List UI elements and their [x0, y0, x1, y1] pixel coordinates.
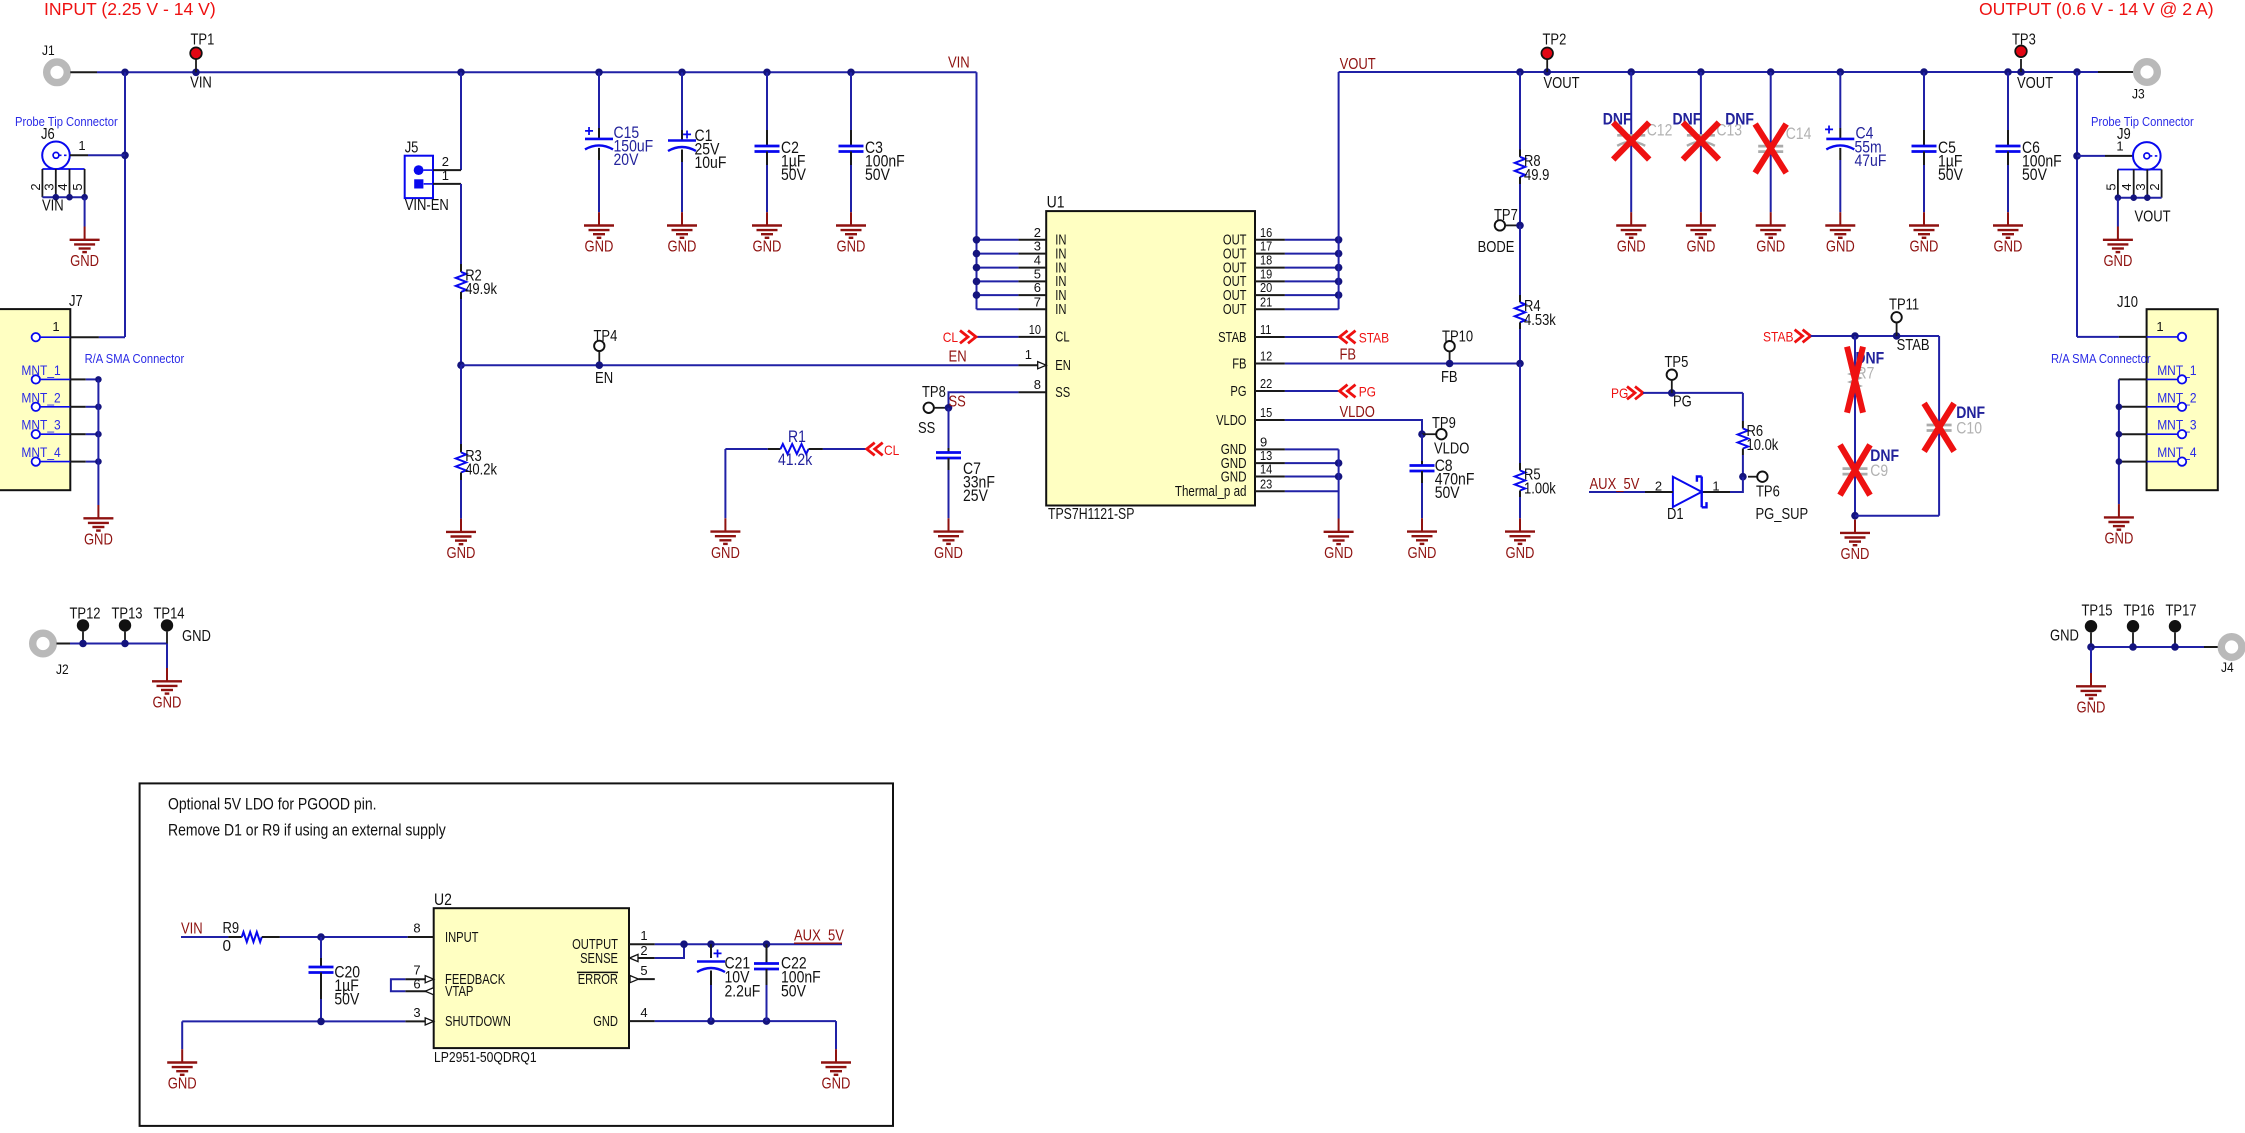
- svg-text:AUX_5V: AUX_5V: [1590, 476, 1641, 493]
- svg-text:GND: GND: [593, 1014, 618, 1030]
- svg-text:SS: SS: [918, 420, 935, 437]
- svg-text:GND: GND: [1408, 545, 1437, 562]
- wire R1 to ground: [724, 449, 726, 518]
- pin SHUTDOWN 3: [405, 1020, 425, 1022]
- svg-text:D1: D1: [1667, 506, 1684, 523]
- ground R5: [1505, 518, 1535, 544]
- wire FB net: [1285, 363, 1520, 365]
- svg-text:6: 6: [1034, 280, 1041, 295]
- capacitor C6: [2007, 72, 2009, 130]
- ground U2 left: [167, 1049, 197, 1075]
- svg-text:PG: PG: [1230, 384, 1246, 400]
- svg-text:50V: 50V: [1435, 483, 1460, 502]
- wire J6 branch vertical: [124, 72, 126, 337]
- svg-text:TP7: TP7: [1494, 207, 1518, 224]
- svg-text:6: 6: [413, 977, 420, 992]
- ground C5: [1909, 212, 1939, 238]
- svg-text:INPUT: INPUT: [445, 930, 479, 946]
- svg-text:GND: GND: [1686, 239, 1715, 256]
- connector J2: [33, 633, 54, 654]
- wire TP12-TP14 row: [70, 643, 167, 645]
- svg-text:STAB: STAB: [1218, 330, 1246, 346]
- svg-text:TP9: TP9: [1432, 415, 1456, 432]
- svg-text:GND: GND: [1826, 239, 1855, 256]
- svg-text:TP11: TP11: [1889, 297, 1919, 314]
- svg-text:3: 3: [413, 1005, 420, 1020]
- svg-text:FB: FB: [1340, 347, 1357, 364]
- svg-text:41.2k: 41.2k: [778, 450, 813, 469]
- svg-text:1: 1: [442, 168, 449, 183]
- svg-text:MNT_4: MNT_4: [21, 445, 60, 461]
- wire VOUT branch to J9 and J10: [2076, 72, 2078, 337]
- svg-text:GND: GND: [153, 695, 182, 712]
- svg-text:8: 8: [413, 921, 420, 936]
- svg-text:EN: EN: [949, 349, 967, 366]
- svg-text:GND: GND: [1841, 546, 1870, 563]
- wire J6 shield to ground: [84, 197, 86, 226]
- ground J10: [2104, 504, 2134, 530]
- svg-text:SS: SS: [1055, 385, 1070, 401]
- svg-text:J6: J6: [41, 126, 55, 143]
- capacitor C15 (electrolytic): [598, 72, 600, 128]
- wire VIN rail drop to U1 IN bus: [976, 72, 978, 309]
- wire TP14 to ground: [166, 644, 168, 669]
- diode D1 (schottky): [1702, 491, 1730, 493]
- connector J10 body: [2147, 309, 2218, 490]
- svg-text:1: 1: [2116, 139, 2123, 154]
- capacitor C12 (DNF): [1630, 72, 1632, 212]
- svg-text:1: 1: [2156, 319, 2163, 334]
- svg-text:VLDO: VLDO: [1434, 441, 1469, 458]
- U1 IN pins 2-7: [1018, 239, 1046, 241]
- svg-text:J2: J2: [56, 662, 69, 678]
- svg-text:GND: GND: [1506, 545, 1535, 562]
- pin 1 of J6: [70, 154, 88, 156]
- svg-text:Optional 5V LDO for PGOOD pin.: Optional 5V LDO for PGOOD pin.: [168, 795, 377, 814]
- svg-text:GND: GND: [668, 239, 697, 256]
- svg-text:VTAP: VTAP: [445, 984, 473, 1000]
- svg-text:GND: GND: [447, 545, 476, 562]
- svg-text:TP6: TP6: [1756, 484, 1780, 501]
- svg-text:R1: R1: [788, 427, 806, 446]
- wire J5 pin2 to VIN rail: [460, 72, 462, 170]
- svg-text:1.00k: 1.00k: [1524, 481, 1556, 498]
- svg-text:VOUT: VOUT: [2135, 209, 2172, 226]
- svg-text:TP2: TP2: [1543, 32, 1567, 49]
- svg-text:+: +: [682, 127, 691, 144]
- svg-text:0: 0: [223, 938, 232, 955]
- wire SHUTDOWN to ground: [182, 1020, 405, 1022]
- svg-text:Probe Tip Connector: Probe Tip Connector: [15, 114, 118, 129]
- svg-text:C12: C12: [1647, 121, 1673, 140]
- pin FEEDBACK 7: [405, 978, 425, 980]
- svg-text:2: 2: [1655, 478, 1662, 493]
- ground TP row left: [152, 668, 182, 694]
- svg-text:GND: GND: [70, 253, 99, 270]
- off-page PG chevron: [1340, 385, 1356, 398]
- svg-text:J10: J10: [2117, 294, 2138, 311]
- svg-text:1: 1: [52, 319, 59, 334]
- wire R9 to U2 INPUT: [280, 936, 408, 938]
- svg-text:C9: C9: [1870, 461, 1888, 480]
- svg-text:11: 11: [1260, 322, 1271, 337]
- svg-text:SENSE: SENSE: [580, 951, 618, 967]
- svg-text:TP10: TP10: [1442, 329, 1473, 346]
- svg-text:21: 21: [1260, 294, 1272, 309]
- ground C12: [1616, 212, 1646, 238]
- svg-text:1: 1: [1712, 478, 1719, 493]
- ground STAB network: [1840, 520, 1870, 546]
- testpoint TP3: [2020, 59, 2022, 72]
- IC U2 body: [434, 908, 629, 1048]
- svg-text:3: 3: [2133, 183, 2148, 190]
- ground C13: [1686, 212, 1716, 238]
- svg-text:DNF: DNF: [1725, 110, 1754, 129]
- testpoint TP10: [1444, 341, 1454, 351]
- svg-text:CL: CL: [1055, 330, 1069, 346]
- wire VLDO net: [1285, 420, 1422, 434]
- testpoint TP1: [195, 58, 197, 72]
- wire OUT bus to VOUT rail: [1338, 72, 1340, 309]
- svg-text:GND: GND: [1221, 469, 1247, 485]
- svg-text:7: 7: [413, 963, 420, 978]
- pin INPUT 8: [408, 936, 434, 938]
- wire U1 GND bus: [1285, 448, 1339, 450]
- svg-text:U2: U2: [434, 890, 452, 909]
- svg-text:14: 14: [1260, 462, 1272, 477]
- svg-text:J3: J3: [2132, 87, 2145, 103]
- J9 pin grid: [2118, 169, 2162, 171]
- wire VOUT rail: [1339, 71, 2098, 73]
- ground R3: [446, 519, 476, 545]
- svg-text:2: 2: [2147, 183, 2162, 190]
- ground J9: [2103, 227, 2133, 253]
- connector J7 body: [0, 309, 70, 490]
- svg-text:MNT_3: MNT_3: [2157, 418, 2196, 434]
- pin SENSE 2: [638, 957, 655, 959]
- svg-text:PG_SUP: PG_SUP: [1756, 506, 1809, 523]
- svg-text:IN: IN: [1055, 302, 1066, 318]
- svg-text:C10: C10: [1956, 419, 1982, 438]
- ground J7: [83, 505, 113, 531]
- capacitor C2: [766, 72, 768, 130]
- svg-text:1: 1: [1025, 347, 1032, 362]
- ground U1: [1324, 519, 1354, 545]
- svg-text:J1: J1: [42, 43, 55, 59]
- svg-text:TP3: TP3: [2012, 32, 2036, 49]
- J6 pin grid: [42, 168, 84, 170]
- ground C4: [1825, 212, 1855, 238]
- svg-text:TPS7H1121-SP: TPS7H1121-SP: [1048, 506, 1134, 523]
- svg-text:50V: 50V: [781, 982, 806, 1001]
- node FB junction: [1516, 360, 1524, 368]
- wire J10 MNT bus: [2118, 379, 2120, 504]
- pin PG 22: [1255, 390, 1285, 392]
- svg-text:10.0k: 10.0k: [1747, 437, 1779, 454]
- pin EN 1: [1018, 364, 1037, 366]
- svg-text:VLDO: VLDO: [1216, 413, 1246, 429]
- svg-text:10uF: 10uF: [695, 153, 727, 172]
- svg-text:+: +: [584, 123, 593, 140]
- svg-text:C14: C14: [1786, 124, 1812, 143]
- svg-text:GND: GND: [84, 532, 113, 549]
- svg-text:VLDO: VLDO: [1340, 404, 1375, 421]
- svg-text:TP1: TP1: [191, 32, 215, 49]
- capacitor C10 (DNF): [1938, 336, 1940, 516]
- svg-text:TP15: TP15: [2081, 603, 2112, 620]
- wire U1 OUT bus: [1285, 239, 1339, 241]
- wire VIN to R9: [181, 936, 228, 938]
- svg-text:J4: J4: [2221, 660, 2234, 676]
- svg-text:ERROR: ERROR: [578, 972, 618, 988]
- testpoint TP5: [1667, 370, 1677, 380]
- svg-text:R/A SMA Connector: R/A SMA Connector: [85, 351, 185, 366]
- svg-text:VIN: VIN: [42, 198, 64, 215]
- testpoint TP15: [2085, 620, 2097, 632]
- svg-text:VOUT: VOUT: [1340, 56, 1377, 73]
- wire J7 MNT bus: [97, 379, 99, 505]
- svg-text:MNT_4: MNT_4: [2157, 445, 2196, 461]
- svg-text:2: 2: [442, 154, 449, 169]
- svg-text:18: 18: [1260, 253, 1272, 268]
- svg-text:VIN-EN: VIN-EN: [405, 197, 449, 214]
- wire U2 GND net: [655, 1020, 836, 1022]
- resistor R5: [1519, 364, 1521, 464]
- svg-text:4.53k: 4.53k: [1524, 312, 1556, 329]
- svg-text:GND: GND: [168, 1076, 197, 1093]
- svg-text:GND: GND: [585, 239, 614, 256]
- svg-text:GND: GND: [934, 545, 963, 562]
- capacitor C7: [948, 408, 950, 448]
- svg-text:FB: FB: [1441, 369, 1458, 386]
- pin 1 of J5: [424, 183, 433, 185]
- U1 OUT pins 16-21: [1255, 239, 1285, 241]
- svg-text:GND: GND: [2050, 628, 2079, 645]
- wire SENSE to OUTPUT: [655, 944, 684, 958]
- capacitor C21 (electrolytic): [710, 944, 712, 958]
- svg-text:5: 5: [70, 183, 85, 190]
- svg-text:PG: PG: [1611, 386, 1628, 402]
- svg-text:PG: PG: [1673, 394, 1692, 411]
- ground U2 right: [821, 1049, 851, 1075]
- svg-text:3: 3: [1034, 239, 1041, 254]
- wire TP15-TP17 row: [2091, 646, 2204, 648]
- resistor R1: [725, 448, 767, 450]
- svg-text:TP12: TP12: [69, 606, 100, 623]
- wire STAB stub: [1285, 336, 1340, 338]
- svg-text:LP2951-50QDRQ1: LP2951-50QDRQ1: [434, 1050, 537, 1066]
- capacitor C14 (DNF): [1770, 72, 1772, 212]
- U1 GND pins 9 13 14 23: [1255, 448, 1285, 450]
- testpoint TP16: [2127, 620, 2139, 632]
- svg-text:GND: GND: [711, 545, 740, 562]
- off-page CL chevron: [960, 331, 976, 344]
- svg-text:50V: 50V: [2022, 165, 2047, 184]
- svg-text:R/A SMA Connector: R/A SMA Connector: [2051, 351, 2151, 366]
- svg-text:GND: GND: [2103, 253, 2132, 270]
- ground C3: [836, 212, 866, 238]
- IC U1 body: [1046, 211, 1255, 505]
- svg-text:VOUT: VOUT: [2017, 75, 2054, 92]
- svg-text:CL: CL: [884, 443, 899, 459]
- pin SS 8: [1018, 391, 1046, 393]
- svg-text:OUTPUT (0.6 V - 14 V @ 2 A): OUTPUT (0.6 V - 14 V @ 2 A): [1979, 0, 2214, 19]
- svg-text:SHUTDOWN: SHUTDOWN: [445, 1014, 511, 1030]
- svg-text:INPUT (2.25 V - 14 V): INPUT (2.25 V - 14 V): [44, 0, 216, 19]
- ground C15: [584, 212, 614, 238]
- svg-text:20: 20: [1260, 280, 1272, 295]
- svg-text:40.2k: 40.2k: [465, 462, 497, 479]
- svg-text:1: 1: [640, 928, 647, 943]
- testpoint TP4: [594, 341, 604, 351]
- svg-text:TP4: TP4: [594, 328, 618, 345]
- svg-text:CL: CL: [943, 330, 958, 346]
- testpoint TP13: [119, 619, 131, 631]
- node STAB gnd junction: [1851, 512, 1859, 520]
- svg-text:Probe Tip Connector: Probe Tip Connector: [2091, 114, 2194, 129]
- svg-text:25V: 25V: [963, 486, 988, 505]
- svg-text:MNT_1: MNT_1: [21, 363, 60, 379]
- svg-text:Remove D1 or R9 if using an ex: Remove D1 or R9 if using an external sup…: [168, 821, 446, 840]
- wire D1 cathode to R6: [1730, 477, 1743, 492]
- svg-text:2.2uF: 2.2uF: [725, 982, 761, 1001]
- node VIN junctions on rail: [121, 69, 129, 77]
- svg-text:20V: 20V: [614, 150, 639, 169]
- pin FB 12: [1255, 363, 1285, 365]
- svg-text:EN: EN: [1055, 358, 1071, 374]
- svg-text:+: +: [1824, 122, 1833, 139]
- svg-text:GND: GND: [1756, 239, 1785, 256]
- svg-text:STAB: STAB: [1763, 330, 1794, 346]
- wire SS net: [949, 392, 1019, 408]
- svg-text:MNT_2: MNT_2: [21, 390, 60, 406]
- svg-text:GND: GND: [1994, 239, 2023, 256]
- svg-text:TP8: TP8: [922, 384, 946, 401]
- wire J9 shield to ground: [2117, 198, 2119, 227]
- resistor R8: [1519, 72, 1521, 150]
- svg-text:FB: FB: [1232, 356, 1246, 372]
- wire feedback-vtap loop: [391, 979, 405, 991]
- svg-text:5: 5: [640, 963, 647, 978]
- svg-text:4: 4: [1034, 253, 1041, 268]
- pin ERROR 5: [639, 978, 655, 980]
- svg-text:50V: 50V: [334, 990, 359, 1009]
- ground C1: [667, 212, 697, 238]
- svg-text:VIN: VIN: [948, 55, 970, 72]
- svg-text:AUX_5V: AUX_5V: [794, 928, 845, 945]
- wire EN net: [461, 364, 1018, 366]
- svg-text:BODE: BODE: [1478, 239, 1515, 256]
- connector J4: [2221, 637, 2242, 658]
- svg-text:23: 23: [1260, 476, 1272, 491]
- svg-text:J7: J7: [69, 293, 83, 310]
- off-page CL chevron right side: [867, 443, 883, 456]
- svg-text:OUT: OUT: [1223, 302, 1247, 318]
- ground TP row right: [2076, 673, 2106, 699]
- svg-text:1: 1: [78, 138, 85, 153]
- svg-text:GND: GND: [753, 239, 782, 256]
- svg-text:MNT_1: MNT_1: [2157, 363, 2196, 379]
- svg-text:4: 4: [55, 183, 70, 190]
- svg-text:GND: GND: [1324, 545, 1353, 562]
- svg-text:50V: 50V: [865, 165, 890, 184]
- svg-text:GND: GND: [1617, 239, 1646, 256]
- resistor R6: [1742, 393, 1744, 421]
- svg-text:47uF: 47uF: [1855, 151, 1887, 170]
- testpoint TP11: [1891, 312, 1901, 322]
- svg-text:22: 22: [1260, 376, 1272, 391]
- resistor R3: [460, 365, 462, 444]
- wire PG net: [1643, 392, 1743, 394]
- svg-text:10: 10: [1029, 322, 1041, 337]
- svg-text:R9: R9: [223, 920, 240, 937]
- pin VTAP 6: [405, 990, 433, 992]
- svg-text:4: 4: [640, 1005, 647, 1020]
- note box optional LDO: [140, 783, 893, 1126]
- svg-text:GND: GND: [837, 239, 866, 256]
- svg-text:50V: 50V: [781, 165, 806, 184]
- pin OUTPUT 1: [629, 943, 655, 945]
- pin STAB 11: [1255, 336, 1285, 338]
- wire PG stub: [1285, 390, 1340, 392]
- capacitor C8: [1421, 434, 1423, 461]
- svg-text:MNT_3: MNT_3: [21, 418, 60, 434]
- svg-text:7: 7: [1034, 294, 1041, 309]
- svg-text:15: 15: [1260, 405, 1272, 420]
- svg-text:GND: GND: [182, 628, 211, 645]
- svg-text:VIN: VIN: [190, 75, 212, 92]
- capacitor C3: [850, 72, 852, 130]
- testpoint TP2: [1546, 59, 1548, 72]
- capacitor C13 (DNF): [1700, 72, 1702, 212]
- svg-text:17: 17: [1260, 239, 1272, 254]
- svg-text:2: 2: [1034, 225, 1041, 240]
- pin 1 of J10: [2077, 336, 2119, 338]
- testpoint TP6: [1739, 473, 1747, 481]
- svg-text:49.9k: 49.9k: [465, 281, 497, 298]
- pin GND 4: [629, 1020, 655, 1022]
- wire J1 to rail: [70, 71, 97, 73]
- ground C6: [1993, 212, 2023, 238]
- svg-text:+: +: [713, 946, 722, 963]
- ground C14: [1756, 212, 1786, 238]
- svg-text:TP14: TP14: [153, 606, 184, 623]
- wire AUX_5V net: [655, 943, 842, 945]
- capacitor C22: [766, 944, 768, 963]
- svg-text:5: 5: [2103, 183, 2118, 190]
- capacitor C5: [1923, 72, 1925, 130]
- testpoint TP7: [1495, 220, 1505, 230]
- wire U1 IN bus: [977, 239, 1019, 241]
- pin 2 of J5: [424, 169, 434, 171]
- wire VIN rail: [97, 71, 977, 73]
- svg-text:STAB: STAB: [1897, 337, 1930, 354]
- off-page STAB chevron: [1340, 331, 1356, 344]
- svg-text:8: 8: [1034, 377, 1041, 392]
- svg-text:2: 2: [640, 943, 647, 958]
- svg-text:STAB: STAB: [1359, 331, 1390, 347]
- connector J1: [47, 62, 68, 83]
- ground C7: [934, 518, 964, 544]
- svg-text:VOUT: VOUT: [1544, 75, 1581, 92]
- svg-text:GND: GND: [822, 1076, 851, 1093]
- wire CL net: [976, 336, 1018, 338]
- svg-text:Thermal_p ad: Thermal_p ad: [1175, 484, 1247, 500]
- svg-text:MNT_2: MNT_2: [2157, 390, 2196, 406]
- resistor R2: [460, 184, 462, 264]
- node VOUT junctions: [1516, 68, 1524, 76]
- svg-text:50V: 50V: [1938, 165, 1963, 184]
